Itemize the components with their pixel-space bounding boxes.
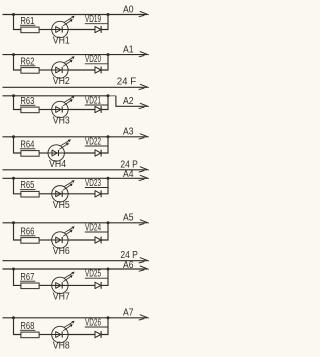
svg-text:VH2: VH2 — [53, 76, 70, 87]
wire net A5 top — [3, 222, 148, 224]
arrow A4 — [139, 175, 148, 180]
wire — [101, 223, 108, 240]
wire net A1 top — [3, 54, 148, 56]
wire — [68, 239, 95, 241]
svg-text:A4: A4 — [123, 169, 134, 180]
wire — [101, 96, 108, 110]
junction node left — [12, 13, 15, 16]
LED VH6 — [52, 227, 74, 257]
diode VD22 — [85, 136, 108, 156]
wire vertical left — [14, 55, 22, 70]
svg-text:A7: A7 — [123, 308, 134, 319]
junction node right — [107, 135, 110, 138]
wire vertical left — [14, 137, 22, 153]
wire — [101, 269, 108, 285]
wire vertical left — [14, 223, 22, 240]
wire — [39, 69, 52, 71]
wire vertical left — [14, 269, 22, 285]
arrow A7 — [139, 315, 148, 320]
wire net A4 top — [3, 177, 148, 179]
junction node left — [12, 177, 15, 180]
wire — [39, 29, 52, 31]
diode VD26 — [85, 317, 108, 338]
resistor R61 — [20, 16, 39, 33]
wire — [39, 334, 52, 336]
wire vertical left — [14, 178, 22, 194]
wire — [101, 55, 108, 70]
wire — [68, 69, 95, 71]
wire — [39, 193, 52, 195]
svg-text:VH7: VH7 — [53, 292, 70, 303]
diode VD21 — [85, 95, 108, 113]
wire step down to output — [116, 96, 147, 107]
wire net A7 top — [3, 317, 148, 319]
svg-text:A0: A0 — [123, 4, 134, 15]
junction node right — [107, 13, 110, 16]
LED VH4 — [48, 140, 70, 170]
wire net A6 top — [3, 268, 148, 270]
wire net A3 top — [3, 136, 148, 138]
svg-text:VH4: VH4 — [49, 159, 66, 170]
svg-text:VH6: VH6 — [53, 246, 70, 257]
wire vertical left — [14, 15, 22, 30]
diode VD24 — [85, 222, 108, 243]
junction node right — [107, 316, 110, 319]
junction node left — [12, 135, 15, 138]
net 24 P wire — [3, 169, 148, 171]
wire — [39, 109, 52, 111]
svg-text:A1: A1 — [123, 45, 134, 56]
arrow 24 P — [139, 167, 148, 172]
wire net A2 top — [3, 95, 109, 97]
junction node left — [12, 53, 15, 56]
LED VH7 — [52, 272, 74, 302]
junction node right — [107, 53, 110, 56]
net 24 F wire — [3, 86, 148, 88]
svg-text:A6: A6 — [123, 260, 134, 271]
diode VD19 — [85, 14, 108, 33]
arrow 24 P — [139, 258, 148, 263]
wire — [68, 284, 95, 286]
wire — [101, 178, 108, 194]
junction node left — [12, 316, 15, 319]
svg-text:A2: A2 — [123, 96, 134, 107]
resistor R67 — [20, 272, 39, 289]
LED VH5 — [52, 181, 74, 211]
wire — [101, 15, 108, 30]
wire — [68, 193, 95, 195]
wire — [68, 109, 95, 111]
junction node right — [107, 221, 110, 224]
svg-text:A5: A5 — [123, 213, 134, 224]
diode VD23 — [85, 178, 108, 197]
LED VH8 — [52, 321, 74, 351]
svg-text:VH8: VH8 — [53, 341, 70, 352]
svg-text:A3: A3 — [123, 127, 134, 138]
wire — [68, 334, 95, 336]
resistor R64 — [20, 139, 39, 156]
svg-text:24 F: 24 F — [117, 77, 137, 88]
LED VH3 — [52, 96, 74, 126]
wire — [39, 239, 52, 241]
junction node left — [12, 94, 15, 97]
junction node left — [12, 268, 15, 271]
arrow A6 — [139, 266, 148, 271]
junction node left — [12, 221, 15, 224]
net 24 P wire — [3, 260, 148, 262]
arrow 24 F — [139, 84, 148, 89]
svg-text:VH5: VH5 — [53, 200, 70, 211]
wire — [64, 152, 95, 154]
wire — [39, 284, 52, 286]
resistor R63 — [20, 96, 39, 113]
wire net A0 top — [3, 14, 148, 16]
arrow A0 — [139, 12, 148, 17]
LED VH1 — [52, 16, 74, 46]
resistor R68 — [20, 321, 39, 338]
diode VD20 — [85, 54, 108, 73]
arrow A1 — [139, 52, 148, 57]
arrow A5 — [139, 220, 148, 225]
arrow A3 — [139, 134, 148, 139]
junction node right — [107, 94, 110, 97]
junction node right — [107, 268, 110, 271]
wire — [101, 137, 108, 153]
svg-text:VH3: VH3 — [53, 116, 70, 127]
wire vertical left — [14, 96, 22, 110]
junction node right — [107, 177, 110, 180]
wire — [39, 152, 48, 154]
resistor R62 — [20, 56, 39, 73]
resistor R66 — [20, 226, 39, 243]
LED VH2 — [52, 57, 74, 87]
wire — [101, 318, 108, 335]
resistor R65 — [20, 180, 39, 197]
wire vertical left — [14, 318, 22, 335]
diode VD25 — [85, 269, 108, 289]
wire — [68, 29, 95, 31]
svg-text:VH1: VH1 — [53, 36, 70, 47]
arrow A2 — [139, 103, 148, 108]
